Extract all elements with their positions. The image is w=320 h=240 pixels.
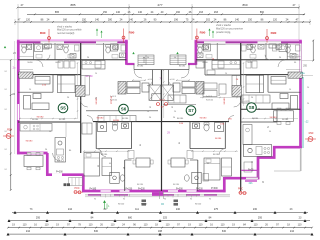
svg-text:150: 150	[82, 18, 87, 21]
svg-text:110: 110	[254, 224, 258, 227]
svg-text:90/180: 90/180	[37, 117, 44, 119]
svg-text:120: 120	[273, 18, 278, 21]
svg-text:POC 90: POC 90	[111, 95, 113, 104]
svg-text:80/180: 80/180	[59, 119, 66, 121]
svg-text:263: 263	[214, 11, 219, 14]
svg-text:90/180: 90/180	[200, 118, 207, 120]
svg-text:110: 110	[111, 224, 115, 227]
svg-text:R90: R90	[129, 31, 135, 35]
svg-text:80/180: 80/180	[137, 184, 144, 186]
svg-text:90/180: 90/180	[26, 141, 33, 143]
svg-text:R90: R90	[7, 127, 12, 131]
svg-text:Mia/126 cm po prometne: Mia/126 cm po prometne	[216, 28, 244, 31]
svg-text:186: 186	[63, 18, 68, 21]
svg-text:R90: R90	[200, 31, 206, 35]
svg-text:325: 325	[163, 216, 168, 219]
svg-text:P=230: P=230	[138, 188, 145, 190]
svg-text:230: 230	[253, 208, 258, 211]
svg-text:P=230: P=230	[126, 189, 133, 191]
svg-text:90/120: 90/120	[141, 204, 148, 206]
svg-text:vhod v stavbo: vhod v stavbo	[216, 24, 232, 27]
svg-text:90/60: 90/60	[247, 62, 253, 64]
svg-text:P=75: P=75	[248, 170, 254, 172]
svg-text:140: 140	[116, 11, 121, 14]
svg-text:90/180: 90/180	[113, 120, 120, 122]
svg-text:90/180: 90/180	[97, 118, 104, 120]
svg-text:R90: R90	[40, 31, 46, 35]
svg-text:240: 240	[176, 208, 181, 211]
svg-text:80/180: 80/180	[213, 154, 220, 156]
svg-text:140: 140	[138, 11, 143, 14]
svg-text:860: 860	[242, 3, 247, 7]
svg-text:POC: POC	[238, 188, 243, 190]
svg-text:150: 150	[103, 11, 108, 14]
svg-text:160: 160	[176, 11, 181, 14]
svg-text:110: 110	[45, 224, 49, 227]
svg-text:110: 110	[166, 224, 170, 227]
svg-text:60/60: 60/60	[55, 62, 61, 64]
svg-text:±0.00: ±0.00	[148, 79, 154, 81]
svg-text:S7: S7	[188, 108, 194, 113]
svg-text:280: 280	[108, 18, 113, 21]
svg-text:196: 196	[174, 18, 179, 21]
svg-text:90/180: 90/180	[224, 97, 226, 104]
svg-text:110: 110	[221, 224, 225, 227]
svg-text:S5: S5	[60, 106, 66, 111]
svg-text:860: 860	[260, 11, 265, 14]
svg-text:110: 110	[23, 224, 27, 227]
svg-text:R90: R90	[309, 131, 314, 135]
svg-text:±0.00: ±0.00	[170, 79, 176, 81]
svg-text:P=300: P=300	[211, 188, 218, 190]
svg-text:80/180: 80/180	[179, 66, 186, 68]
svg-text:110: 110	[199, 224, 203, 227]
svg-text:S6: S6	[121, 107, 127, 112]
svg-text:60/60: 60/60	[202, 62, 208, 64]
svg-text:295: 295	[36, 216, 41, 219]
svg-text:120: 120	[26, 18, 31, 21]
svg-text:7x17/29: 7x17/29	[242, 101, 250, 103]
svg-text:302: 302	[206, 18, 211, 21]
svg-text:277: 277	[157, 3, 162, 7]
svg-text:140: 140	[235, 18, 240, 21]
svg-text:110: 110	[89, 224, 93, 227]
svg-text:295: 295	[258, 216, 263, 219]
svg-text:80/180: 80/180	[137, 66, 144, 68]
svg-text:110: 110	[298, 224, 302, 227]
svg-text:80/180: 80/180	[173, 184, 180, 186]
svg-text:POC: POC	[75, 188, 80, 190]
svg-text:P=300: P=300	[56, 172, 63, 174]
svg-text:90/180: 90/180	[215, 138, 222, 140]
svg-text:90/120: 90/120	[118, 204, 125, 206]
svg-text:posebni knjig,: posebni knjig,	[216, 31, 231, 34]
svg-text:244: 244	[68, 208, 73, 211]
svg-text:630: 630	[94, 230, 99, 233]
svg-text:22a: 22a	[300, 72, 305, 75]
svg-text:140: 140	[95, 18, 100, 21]
svg-text:244: 244	[290, 230, 295, 233]
svg-text:188: 188	[158, 230, 163, 233]
svg-text:630: 630	[222, 230, 227, 233]
svg-text:80/180: 80/180	[252, 118, 259, 120]
svg-text:111: 111	[135, 208, 139, 211]
svg-text:865: 865	[55, 11, 60, 14]
svg-text:680: 680	[128, 216, 133, 219]
svg-text:P=300: P=300	[176, 188, 183, 190]
svg-text:P=185: P=185	[90, 189, 97, 191]
svg-text:80/180: 80/180	[101, 154, 108, 156]
svg-text:9x18.22: 9x18.22	[206, 100, 214, 102]
svg-text:80/180: 80/180	[177, 118, 184, 120]
svg-text:R90: R90	[271, 31, 277, 35]
svg-text:90/60: 90/60	[27, 62, 33, 64]
svg-text:80/180: 80/180	[122, 118, 129, 120]
svg-text:140: 140	[129, 18, 134, 21]
svg-text:150: 150	[248, 18, 253, 21]
svg-text:S8: S8	[249, 105, 255, 110]
svg-text:P=230: P=230	[196, 189, 203, 191]
svg-text:110: 110	[144, 224, 148, 227]
svg-text:90/180: 90/180	[282, 119, 289, 121]
svg-text:90/180: 90/180	[270, 117, 277, 119]
svg-text:163: 163	[199, 11, 204, 14]
svg-text:nemzet travlja(l): nemzet travlja(l)	[57, 32, 75, 35]
svg-text:244: 244	[26, 230, 31, 233]
svg-text:885: 885	[70, 3, 75, 7]
svg-text:90/180: 90/180	[32, 119, 39, 121]
svg-text:275: 275	[214, 208, 219, 211]
svg-text:2x10.5: 2x10.5	[159, 100, 166, 102]
svg-text:90/120: 90/120	[195, 204, 202, 206]
